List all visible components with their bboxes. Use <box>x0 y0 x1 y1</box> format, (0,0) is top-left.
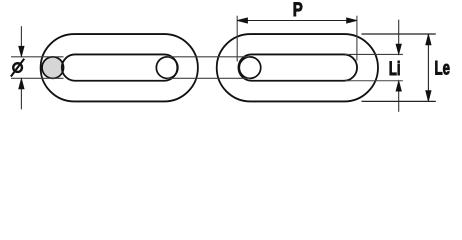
wire edge line top left <box>11 56 64 58</box>
Li lower arrow <box>396 81 401 112</box>
svg-text:Li: Li <box>389 57 401 79</box>
Le upper extension line <box>362 33 436 35</box>
wire edge line bottom left <box>11 77 64 79</box>
Li lower extension line <box>345 80 403 82</box>
Li upper arrow <box>396 20 401 55</box>
diameter symbol <box>11 59 24 77</box>
wire cross-section circle (gray, diameter reference) <box>42 57 64 79</box>
wire edge line top middle <box>167 56 250 58</box>
diameter dimension upper arrow <box>19 26 24 56</box>
Li label <box>389 57 401 79</box>
right link inner hole outline <box>238 54 357 80</box>
left link inner hole outline <box>62 54 178 80</box>
svg-text:P: P <box>293 0 303 20</box>
diameter dimension lower arrow <box>19 79 24 110</box>
P dimension right extension line <box>356 16 358 61</box>
P dimension left extension line <box>236 16 238 62</box>
svg-text:Le: Le <box>435 57 450 79</box>
left link outer outline <box>41 34 198 101</box>
right link outer outline <box>217 34 378 101</box>
wire cross-section circle in left link right end <box>156 57 178 79</box>
Le dimension line <box>426 34 431 101</box>
wire cross-section circle in right link left end <box>239 57 261 79</box>
Le label <box>435 57 450 79</box>
P dimension line <box>237 18 357 23</box>
wire edge line bottom middle <box>167 77 250 79</box>
P label <box>293 0 303 20</box>
Li upper extension line <box>345 53 403 55</box>
Le lower extension line <box>362 100 436 102</box>
